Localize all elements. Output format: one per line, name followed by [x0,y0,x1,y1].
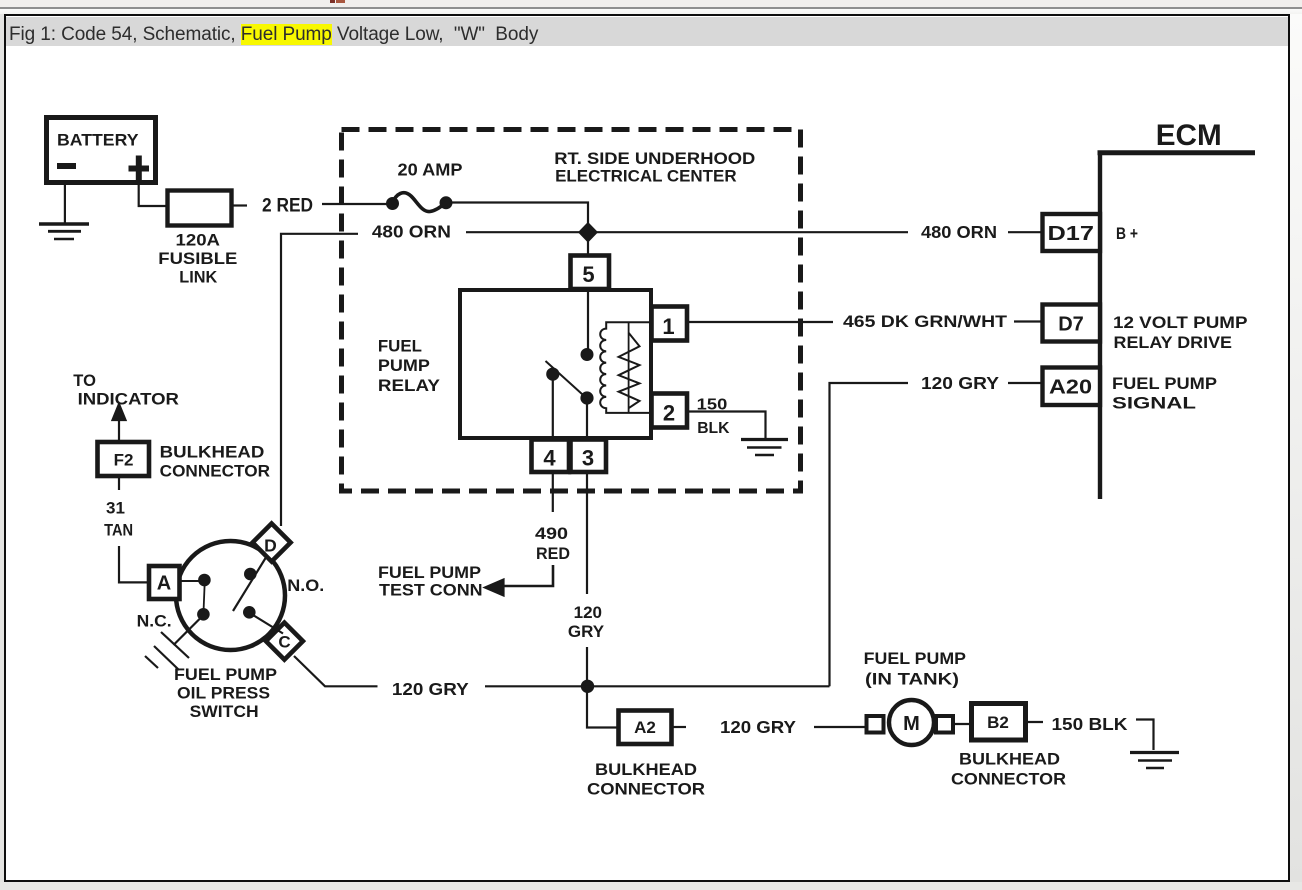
fuel pump left terminal [867,716,884,733]
svg-text:RELAY DRIVE: RELAY DRIVE [1114,333,1233,352]
wire 480 ORN to D17 [1008,231,1043,233]
relay pin 3 box [571,440,607,473]
svg-text:INDICATOR: INDICATOR [78,391,179,409]
svg-text:31: 31 [106,498,125,517]
ECM pin D17 box [1043,214,1101,251]
svg-text:(IN TANK): (IN TANK) [865,670,959,689]
junction dot 120 GRY [582,681,593,692]
wire 2 RED to fuse [322,203,388,205]
svg-text:CONNECTOR: CONNECTOR [160,462,270,480]
svg-text:4: 4 [543,446,556,471]
dashed box: RT. SIDE UNDERHOOD ELECTRICAL CENTER [342,130,801,492]
ground (relay pin2) [741,440,788,456]
svg-text:M: M [903,713,920,735]
svg-text:1: 1 [662,314,674,339]
fusible link F1 120A [168,191,232,226]
relay box: fuel pump relay [460,290,651,438]
svg-text:BATTERY: BATTERY [57,131,139,150]
svg-text:FUEL: FUEL [378,337,422,356]
wire battery minus to ground [64,185,66,223]
svg-text:D7: D7 [1058,314,1084,336]
svg-text:LINK: LINK [179,269,217,287]
bulkhead connector A2 [619,711,672,745]
svg-text:D17: D17 [1048,223,1095,245]
svg-text:FUEL PUMP: FUEL PUMP [174,665,277,684]
svg-text:FUSIBLE: FUSIBLE [158,250,237,268]
svg-text:RELAY: RELAY [378,376,441,395]
svg-text:SWITCH: SWITCH [190,702,259,721]
svg-text:20 AMP: 20 AMP [398,160,463,180]
wire 465 to D7 [1014,320,1043,322]
svg-text:PUMP: PUMP [378,356,430,375]
svg-text:FUEL PUMP: FUEL PUMP [864,649,966,668]
switch arm from D [233,557,267,612]
svg-text:120 GRY: 120 GRY [392,679,469,699]
switch N.C. contact link [204,585,205,610]
wire pump to B2 [954,723,972,725]
svg-text:12 VOLT PUMP: 12 VOLT PUMP [1113,313,1248,332]
relay contact dot pin4 [547,369,558,380]
wire junction down to A2 [587,686,618,728]
svg-text:ECM: ECM [1156,119,1222,152]
relay pin 4 box [532,440,570,473]
svg-text:120 GRY: 120 GRY [921,373,999,393]
switch terminal A box [149,566,180,599]
svg-text:120: 120 [574,603,602,622]
relay pin 2 box [652,394,688,428]
svg-text:A: A [157,573,171,595]
svg-text:490: 490 [535,524,568,543]
svg-text:2 RED: 2 RED [262,196,313,217]
ground (fuel pump) [1130,753,1179,769]
switch terminal C diamond [266,623,303,660]
svg-text:N.O.: N.O. [287,576,324,595]
arrowhead test conn [485,580,504,596]
ground (battery) [39,224,89,239]
oil pressure switch circle [176,541,285,650]
fuel pump motor M [889,700,934,745]
svg-text:465 DK GRN/WHT: 465 DK GRN/WHT [843,312,1008,331]
fuse 20 AMP [387,193,451,212]
wire battery plus to fusible link [139,185,167,206]
junction 480 ORN / pin5 [580,224,597,242]
chassis hatching [145,632,189,670]
svg-text:ELECTRICAL CENTER: ELECTRICAL CENTER [555,167,737,185]
ECM vertical line [1098,153,1102,499]
wire 465 DK GRN/WHT [687,321,833,323]
wire pin2 150 BLK to ground [687,412,766,441]
svg-text:OIL PRESS: OIL PRESS [177,683,270,702]
relay pin 1 box [652,307,688,341]
wire below pin4 [552,472,554,512]
svg-text:BULKHEAD: BULKHEAD [595,761,697,779]
wire from switch C to 120 GRY label [294,656,378,686]
svg-text:N.C.: N.C. [137,611,172,630]
switch N.O. contact dots [245,569,255,579]
svg-text:FUEL PUMP: FUEL PUMP [1112,374,1217,393]
relay coil outline [600,322,650,413]
svg-text:RED: RED [536,544,570,563]
ECM pin D7 box [1043,305,1101,342]
wire 120 GRY resume to junction [586,647,588,686]
svg-text:150 BLK: 150 BLK [1052,714,1128,734]
relay switch arm [546,361,588,399]
svg-text:150: 150 [697,396,728,413]
svg-text:FUEL PUMP: FUEL PUMP [378,563,481,582]
relay resistor zigzag [619,333,640,409]
svg-text:5: 5 [582,262,594,287]
svg-text:C: C [278,633,290,652]
svg-text:F2: F2 [114,450,134,469]
bulkhead connector F2 [98,442,150,476]
svg-text:GRY: GRY [568,622,605,641]
switch terminal D diamond [253,524,291,562]
svg-text:TO: TO [73,372,96,390]
svg-text:BULKHEAD: BULKHEAD [959,750,1060,768]
wire pin3 down [586,403,588,439]
arrow to indicator [118,418,120,442]
svg-text:BULKHEAD: BULKHEAD [160,444,265,462]
wire 490 RED to test connector arrow [502,565,553,586]
svg-text:TEST CONN: TEST CONN [379,581,483,600]
wire 31 TAN to switch A [119,546,150,582]
svg-text:RT. SIDE UNDERHOOD: RT. SIDE UNDERHOOD [554,150,755,168]
wire fuse to pin5 corner [450,203,588,257]
svg-text:B2: B2 [987,713,1009,732]
wire A20 tick [1008,382,1043,384]
wire pin4 down [552,379,554,439]
switch N.C. wire to chassis [174,618,202,646]
wire below pin3 [586,472,588,594]
wire A into circle [180,580,200,582]
wire below F2 [118,476,120,490]
wire up to A20 120 GRY [830,383,909,686]
ECM pin A20 box [1043,368,1101,406]
battery plus terminal [129,156,150,182]
svg-text:B +: B + [1116,225,1138,243]
svg-text:TAN: TAN [104,520,133,539]
svg-text:A20: A20 [1049,377,1092,399]
switch wire dot to C [253,615,283,634]
battery minus terminal [57,163,76,169]
wire 480 ORN main [466,231,908,233]
wire 120 GRY bottom run [485,685,830,687]
svg-text:480 ORN: 480 ORN [921,222,997,242]
ECM top line [1098,150,1256,155]
relay coil core line [628,322,630,413]
svg-text:120 GRY: 120 GRY [720,717,796,737]
wire 480 ORN left branch to switch D [281,234,358,526]
svg-text:BLK: BLK [697,420,730,437]
wire 150 BLK hook to ground [1136,720,1154,751]
svg-text:CONNECTOR: CONNECTOR [951,770,1066,788]
wire A2 right [672,726,686,728]
fuel pump right terminal [936,716,953,733]
wire pin5 into relay [587,288,589,350]
wire B2 right [1026,721,1043,723]
svg-text:480 ORN: 480 ORN [372,222,451,242]
svg-text:CONNECTOR: CONNECTOR [587,780,705,798]
svg-text:2: 2 [663,401,675,426]
svg-text:120A: 120A [176,232,221,250]
wire fusible link output [232,204,247,206]
relay contact dot pin3 [582,393,593,404]
svg-text:3: 3 [582,446,594,471]
relay pin 5 box [571,256,610,290]
svg-text:A2: A2 [634,718,656,737]
svg-text:SIGNAL: SIGNAL [1112,394,1196,413]
relay common dot [582,349,593,360]
wire 120 GRY to pump [814,726,867,728]
switch N.C. contact dots [199,575,209,585]
battery B1 [47,118,156,183]
bulkhead connector B2 [972,704,1026,741]
svg-text:D: D [264,536,277,556]
